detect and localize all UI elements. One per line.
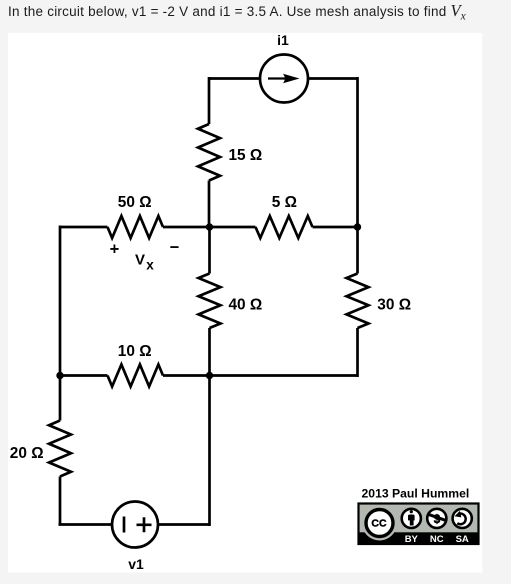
- wire right-bottom: 30-ohm bottom down to corner: [356, 328, 359, 377]
- svg-text:BY: BY: [405, 534, 419, 545]
- wire node A left: 50-ohm to node A and to 5-ohm: [163, 226, 256, 229]
- NC slash: [429, 515, 446, 521]
- svg-text:40 Ω: 40 Ω: [229, 296, 263, 313]
- SA icon circle: [453, 509, 472, 528]
- CC license badge background: [359, 504, 479, 545]
- current source i1 circle: [260, 55, 308, 103]
- resistor 30 ohm (vertical): [347, 274, 369, 329]
- svg-text:v1: v1: [128, 556, 144, 572]
- CC logo big circle: [362, 506, 397, 541]
- wire left vertical: middle wire down through node D to 20-ohm top: [59, 226, 62, 421]
- svg-text:2013 Paul Hummel: 2013 Paul Hummel: [362, 486, 470, 500]
- resistor 10 ohm (horizontal): [108, 365, 164, 387]
- NC icon circle: [427, 509, 446, 528]
- resistor 20 ohm (vertical): [49, 421, 71, 477]
- svg-text:NC: NC: [430, 534, 444, 545]
- resistor 5 ohm (horizontal): [256, 216, 313, 238]
- svg-text:V: V: [135, 251, 145, 268]
- wire top-right: i1 right terminal to right branch corner: [308, 77, 358, 80]
- wire v1 right terminal to bottom-right corner up to node C: [159, 376, 210, 527]
- wire 5-ohm right to node B: [313, 226, 358, 229]
- svg-text:5 Ω: 5 Ω: [272, 194, 297, 211]
- junction node B: [354, 223, 361, 230]
- svg-text:x: x: [146, 258, 154, 273]
- wire 15-ohm bottom to node A: [208, 181, 211, 229]
- SA arrow arc: [457, 514, 465, 525]
- CC badge black strip: [360, 532, 478, 543]
- wire top-left: node at 15-ohm top to i1 left terminal: [209, 77, 260, 80]
- wire right vertical: top corner down to node B: [356, 77, 359, 227]
- voltage source v1 plus sign: [137, 517, 152, 532]
- wire 20-ohm bottom to bottom-left corner to v1 left terminal: [59, 477, 112, 525]
- wire node D to 10-ohm left: [59, 374, 108, 377]
- wire node A to 40-ohm top: [208, 226, 211, 274]
- wire middle-left: left corner to 50-ohm: [60, 226, 108, 229]
- voltage source v1 minus bar: [123, 517, 126, 533]
- svg-text:CC: CC: [371, 517, 387, 529]
- BY person body: [408, 515, 415, 526]
- svg-text:20 Ω: 20 Ω: [10, 445, 44, 462]
- svg-text:15 Ω: 15 Ω: [229, 147, 263, 164]
- resistor 40 ohm (vertical): [199, 274, 221, 329]
- svg-text:50 Ω: 50 Ω: [118, 194, 152, 211]
- svg-text:10 Ω: 10 Ω: [118, 343, 152, 360]
- current source i1 arrow shaft: [268, 77, 286, 79]
- BY icon circle: [402, 509, 421, 528]
- SA arrowhead: [455, 511, 462, 518]
- resistor 15 ohm (vertical): [198, 124, 220, 181]
- wire middle-branch top: corner to 15-ohm top: [208, 77, 211, 124]
- junction node C: [206, 372, 213, 379]
- wire 40-ohm bottom to node C: [208, 328, 211, 376]
- svg-text:+: +: [110, 241, 120, 259]
- svg-text:i1: i1: [277, 32, 289, 48]
- junction node D: [56, 372, 63, 379]
- wire 10-ohm right to node C and onward right: [163, 374, 358, 377]
- svg-text:−: −: [170, 238, 180, 256]
- BY person head: [410, 510, 413, 513]
- svg-text:30 Ω: 30 Ω: [377, 296, 411, 313]
- resistor 50 ohm (horizontal): [108, 216, 164, 238]
- junction node A: [206, 223, 213, 230]
- wire node B to 30-ohm top: [356, 226, 359, 274]
- current source i1 arrowhead: [283, 74, 300, 83]
- voltage source v1 circle: [112, 502, 158, 548]
- svg-text:SA: SA: [456, 534, 469, 545]
